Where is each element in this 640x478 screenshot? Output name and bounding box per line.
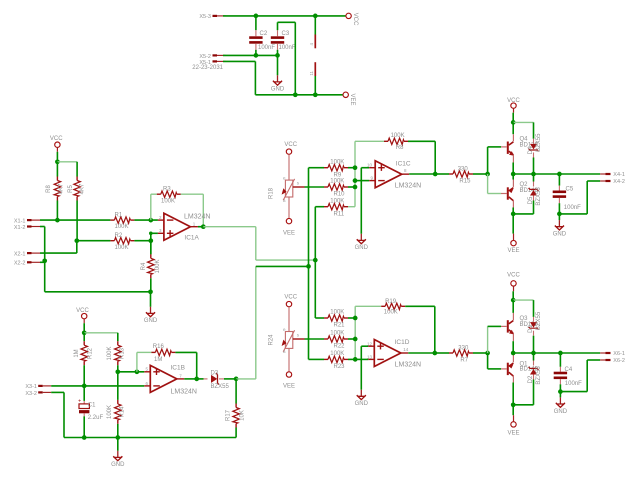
junction emitter rail upper	[511, 172, 516, 177]
svg-text:VCC: VCC	[507, 273, 520, 279]
wire IC1D output	[408, 352, 435, 354]
wire X1-2 down to tie	[40, 227, 45, 261]
wire VCC to D4 branch	[513, 121, 533, 123]
svg-text:100K: 100K	[330, 351, 344, 357]
ground GND IC1C	[355, 234, 369, 251]
svg-text:C5: C5	[566, 187, 574, 193]
svg-text:GND: GND	[271, 87, 285, 93]
svg-text:VEE: VEE	[507, 248, 519, 254]
svg-text:100K: 100K	[330, 198, 344, 204]
svg-text:330: 330	[458, 167, 469, 173]
svg-text:VCC: VCC	[352, 13, 358, 26]
supply VEE R24	[283, 372, 295, 390]
svg-text:100K: 100K	[107, 346, 113, 360]
svg-text:IC1D: IC1D	[395, 339, 410, 346]
wire GND net X5-2	[223, 55, 278, 75]
svg-text:X2-2: X2-2	[14, 261, 26, 267]
svg-text:R13: R13	[120, 347, 126, 359]
svg-text:GND: GND	[554, 409, 568, 415]
svg-text:+: +	[78, 399, 81, 405]
junction C3 bottom	[275, 53, 280, 58]
svg-text:VCC: VCC	[76, 308, 89, 314]
junction R10 on bus	[353, 185, 358, 190]
supply VCC top	[346, 13, 358, 26]
svg-text:100K: 100K	[330, 159, 344, 165]
wire plus pin IC1D to ground	[361, 346, 368, 390]
junction C1 bottom	[82, 435, 87, 440]
wire X3-1 inverting line	[51, 385, 144, 387]
svg-text:R23: R23	[334, 364, 346, 370]
capacitor C4 100nF	[554, 353, 582, 392]
svg-text:C2: C2	[260, 31, 268, 37]
junction VCC jog	[55, 159, 60, 164]
svg-text:GND: GND	[355, 401, 369, 407]
wire VCC jog to R13	[84, 332, 118, 334]
junction VEE node lower	[511, 402, 516, 407]
svg-text:BZX55: BZX55	[536, 311, 542, 330]
svg-text:VEE: VEE	[283, 384, 295, 390]
svg-text:R24: R24	[269, 334, 275, 346]
svg-text:VCC: VCC	[50, 136, 63, 142]
svg-text:X2-1: X2-1	[14, 251, 26, 257]
svg-text:VEE: VEE	[507, 430, 519, 436]
svg-text:LM324N: LM324N	[171, 389, 197, 396]
junction base node lower	[485, 351, 490, 356]
supply VCC IC1A	[50, 136, 63, 162]
svg-text:LM324N: LM324N	[395, 361, 421, 368]
svg-text:R19: R19	[385, 299, 397, 305]
svg-text:4K7: 4K7	[59, 183, 65, 194]
capacitor C5 100nF	[553, 174, 581, 214]
svg-text:BZX55: BZX55	[211, 384, 230, 390]
junction C5 top	[557, 172, 562, 177]
wire summing bus IC1D	[354, 306, 356, 359]
resistor R22 100K	[324, 331, 355, 350]
connector X6-1	[600, 351, 625, 357]
junction VCC jog IC1B	[82, 330, 87, 335]
power pin 4 IC1 supply gate	[309, 16, 315, 48]
connector X1-1	[14, 218, 40, 224]
svg-text:R9: R9	[334, 172, 342, 178]
svg-text:100nF: 100nF	[565, 381, 582, 387]
transistor Q2 BD140	[507, 174, 539, 214]
svg-text:R8: R8	[396, 145, 404, 151]
svg-text:VCC: VCC	[284, 142, 297, 148]
svg-text:100K: 100K	[107, 405, 113, 419]
svg-text:R21: R21	[334, 323, 346, 329]
resistor R16 1M positive feedback	[137, 344, 197, 379]
op-amp IC1C	[367, 160, 421, 189]
junction R21 on bus	[353, 316, 358, 321]
wire VCC jog to R5	[57, 161, 77, 163]
svg-text:X6-2: X6-2	[613, 358, 625, 364]
connector X4-1	[600, 172, 625, 178]
svg-text:VEE: VEE	[349, 94, 355, 106]
svg-text:2.2uF: 2.2uF	[88, 415, 104, 421]
resistor R5 4K7	[68, 162, 86, 241]
resistor R23 100K	[309, 351, 356, 370]
junction R9 on bus	[353, 165, 358, 170]
ground GND C4	[554, 392, 568, 415]
svg-text:100nF: 100nF	[279, 45, 296, 51]
svg-text:22-23-2031: 22-23-2031	[192, 65, 223, 71]
junction R4 bottom / ground node	[148, 289, 153, 294]
wire plus pin IC1C to ground	[361, 168, 369, 234]
junction IC1B bus	[306, 264, 311, 269]
junction C2 top	[254, 14, 259, 19]
supply VEE lower stage	[507, 405, 519, 437]
connector X3-2	[25, 391, 51, 397]
svg-text:4K7: 4K7	[79, 183, 85, 194]
connector X6-2	[600, 358, 625, 364]
svg-text:C1: C1	[88, 403, 96, 409]
wire R1 to inverting input	[134, 219, 158, 221]
connector X3-1	[25, 384, 51, 390]
wire non-inverting input node	[149, 232, 158, 255]
svg-text:BZX55: BZX55	[536, 366, 542, 385]
op-amp IC1B	[144, 365, 197, 396]
wire IC1A output	[198, 226, 203, 228]
capacitor C3	[271, 30, 296, 55]
junction C4 top	[558, 351, 563, 356]
svg-text:X1-2: X1-2	[14, 225, 26, 231]
svg-text:X3-2: X3-2	[25, 391, 37, 397]
svg-text:1M: 1M	[74, 349, 80, 357]
supply VCC IC1B	[76, 308, 89, 333]
resistor R2 100K	[77, 233, 151, 251]
svg-text:R5: R5	[68, 185, 74, 193]
junction R1 / R3 node	[148, 218, 153, 223]
svg-text:IC1B: IC1B	[171, 365, 185, 372]
junction base node upper	[485, 172, 490, 177]
svg-text:GND: GND	[111, 462, 125, 468]
ground GND IC1B	[111, 438, 125, 469]
junction minus pin IC1C	[353, 178, 358, 183]
wire bus IC1B-out to R9 and R23	[308, 168, 310, 360]
wire IC1B out route to bus	[236, 266, 308, 379]
wire IC1B output	[184, 378, 196, 380]
wire IC1A output route to bus	[203, 227, 315, 260]
junction D1/D2 on rail	[531, 351, 536, 356]
svg-text:12: 12	[367, 341, 373, 346]
svg-text:R11: R11	[334, 211, 345, 217]
resistor R21 100K	[315, 310, 355, 329]
diode D3 BZX55	[197, 370, 236, 389]
svg-text:Q3: Q3	[520, 316, 529, 322]
wire base to Q1	[488, 353, 507, 369]
wire C3 top to VEE rail	[278, 22, 296, 95]
power pin 11 IC1 supply gate	[309, 62, 315, 95]
junction R8 bottom	[55, 218, 60, 223]
svg-text:100K: 100K	[115, 245, 129, 251]
svg-text:10K: 10K	[239, 410, 245, 421]
wire VCC to D1 branch	[513, 299, 533, 301]
junction C4 bottom	[558, 389, 563, 394]
resistor R11 100K	[315, 198, 355, 217]
svg-text:100nF: 100nF	[564, 205, 581, 211]
junction power pin 11	[313, 92, 318, 97]
svg-text:R7: R7	[460, 358, 468, 364]
junction C3 route on VEE rail	[293, 92, 298, 97]
ground GND IC1D	[355, 390, 369, 408]
svg-text:R17: R17	[225, 409, 231, 421]
wire X2-1 to R5/R2 node	[40, 241, 77, 253]
svg-text:X5-3: X5-3	[199, 14, 211, 20]
resistor R4 100K	[141, 241, 161, 292]
svg-text:GND: GND	[144, 318, 158, 324]
svg-text:IC1C: IC1C	[396, 160, 411, 167]
ground GND C5	[553, 214, 567, 238]
junction VCC node upper	[511, 120, 516, 125]
svg-text:Q2: Q2	[520, 182, 529, 188]
svg-text:X3-1: X3-1	[25, 384, 37, 390]
junction R8 loop / IC1C out	[433, 172, 438, 177]
wire X1-1 to R1	[40, 219, 110, 221]
potentiometer R18	[269, 142, 305, 218]
diode D1 BZX55	[528, 300, 542, 353]
junction R19 loop / IC1D out	[432, 351, 437, 356]
ground GND top	[271, 75, 285, 92]
svg-text:VCC: VCC	[284, 294, 297, 300]
svg-text:1M: 1M	[154, 357, 162, 363]
svg-text:R14: R14	[120, 406, 126, 418]
supply VEE R18	[283, 218, 295, 236]
connector X2-2	[14, 261, 40, 267]
svg-text:R4: R4	[141, 262, 147, 270]
junction R12 bottom / C1	[82, 384, 87, 389]
transistor Q3 BD139	[507, 313, 539, 353]
svg-text:R16: R16	[153, 344, 165, 350]
supply VEE top	[343, 92, 355, 105]
svg-text:R18: R18	[269, 187, 275, 199]
potentiometer R24	[269, 294, 305, 371]
svg-text:D1: D1	[528, 325, 534, 333]
junction R2 left	[74, 238, 79, 243]
connector X5-1	[192, 60, 225, 71]
connector X2-1	[14, 251, 40, 257]
junction IC1A output	[201, 224, 206, 229]
wire R24 wiper to R22	[305, 338, 325, 340]
junction C2 bottom	[254, 53, 259, 58]
svg-text:100K: 100K	[391, 133, 405, 139]
wire output rail upper	[513, 173, 600, 175]
svg-text:D2: D2	[528, 375, 534, 383]
svg-text:R12: R12	[87, 347, 93, 359]
svg-text:100nF: 100nF	[258, 45, 275, 51]
junction X1-2/X2-2 tie	[42, 258, 47, 263]
wire X4-2 route	[559, 181, 600, 214]
junction VEE node upper	[511, 212, 516, 217]
resistor R13 100K	[107, 333, 126, 372]
svg-text:X4-1: X4-1	[613, 172, 625, 178]
wire X6-2 route	[560, 360, 600, 392]
connector X4-2	[600, 179, 625, 185]
wire VCC to Q3 collector	[512, 300, 514, 313]
svg-text:10: 10	[367, 162, 373, 167]
junction R22 on bus	[353, 337, 358, 342]
svg-text:R22: R22	[334, 344, 346, 350]
capacitor C1 2.2uF polarized	[78, 386, 103, 438]
wire IC1C output	[409, 173, 435, 175]
wire X3-2 to bottom rail	[51, 392, 236, 437]
wire ground return to R4 node	[45, 261, 151, 292]
wire base to Q3	[488, 326, 507, 353]
svg-text:GND: GND	[553, 232, 567, 238]
junction R23 / minus pin	[353, 357, 358, 362]
svg-text:D4: D4	[528, 146, 534, 154]
resistor R1 100K	[110, 213, 134, 231]
transistor Q1 BD140	[507, 353, 539, 405]
wire summing bus IC1C	[354, 141, 356, 206]
junction emitter rail lower	[511, 351, 516, 356]
svg-text:14: 14	[403, 347, 409, 352]
svg-text:100K: 100K	[161, 198, 175, 204]
supply VCC lower stage	[507, 273, 520, 301]
wire VCC rail top	[223, 15, 346, 17]
svg-text:R8: R8	[46, 185, 52, 193]
junction R16 right / output	[194, 377, 199, 382]
junction D4/D5 on rail	[531, 172, 536, 177]
svg-text:X4-2: X4-2	[613, 179, 625, 185]
svg-text:C3: C3	[282, 31, 290, 37]
junction VCC node lower	[511, 298, 516, 303]
junction D3 / R17	[234, 377, 239, 382]
svg-text:R15: R15	[459, 179, 471, 185]
resistor R7 330	[435, 345, 488, 363]
resistor R14 100K	[107, 372, 126, 438]
svg-text:100K: 100K	[330, 179, 344, 185]
svg-text:100K: 100K	[330, 331, 344, 337]
wire VEE rail top	[223, 61, 343, 94]
svg-text:R1: R1	[115, 213, 123, 219]
ground GND IC1A	[144, 292, 158, 324]
connector X1-2	[14, 225, 40, 231]
resistor R17 10K	[225, 379, 245, 438]
svg-text:LM324N: LM324N	[395, 182, 421, 189]
wire R18 wiper to R10	[305, 186, 325, 188]
svg-text:R10: R10	[334, 192, 346, 198]
svg-text:D3: D3	[211, 370, 219, 376]
svg-text:100K: 100K	[115, 224, 129, 230]
junction R2 right	[148, 238, 153, 243]
transistor Q4 BD139	[507, 134, 539, 174]
svg-text:100K: 100K	[330, 310, 344, 316]
svg-text:X6-1: X6-1	[613, 351, 625, 357]
connector X5-2	[199, 54, 225, 60]
diode D4 BZX55	[528, 122, 542, 174]
wire minus pin IC1D	[355, 358, 368, 360]
svg-text:C4: C4	[565, 367, 573, 373]
op-amp IC1D	[367, 339, 421, 369]
junction R13 / plus line	[115, 369, 120, 374]
wire bus IC1A-out to R11 and R21	[314, 207, 316, 318]
svg-text:IC1A: IC1A	[184, 235, 199, 242]
svg-text:100K: 100K	[384, 310, 398, 316]
junction C5 bottom	[557, 212, 562, 217]
junction IC1A bus	[313, 258, 318, 263]
resistor R19 100K feedback	[355, 299, 435, 353]
diode D5 BZX55	[513, 174, 542, 214]
svg-text:R3: R3	[163, 187, 171, 193]
svg-text:GND: GND	[355, 245, 369, 251]
wire base to Q2	[488, 174, 507, 194]
connector X5-3	[199, 14, 225, 20]
resistor R8 4K7	[46, 162, 65, 220]
capacitor C2	[249, 16, 275, 56]
resistor R12 1M	[74, 333, 94, 386]
svg-text:330: 330	[458, 345, 469, 351]
svg-text:13: 13	[367, 354, 373, 359]
resistor R15 330	[435, 167, 487, 185]
wire VCC to Q4 collector	[512, 122, 514, 134]
junction R16 loop on plus line	[135, 369, 140, 374]
svg-text:D5: D5	[528, 196, 534, 204]
svg-text:100K: 100K	[155, 259, 161, 273]
op-amp IC1A	[158, 213, 211, 241]
svg-text:Q4: Q4	[520, 136, 529, 142]
svg-text:LM324N: LM324N	[184, 214, 210, 221]
junction R14 bottom / ground	[115, 435, 120, 440]
resistor R10 100K	[324, 179, 355, 198]
svg-text:R2: R2	[115, 233, 123, 239]
svg-text:11: 11	[309, 71, 314, 76]
wire non-inverting line IC1B	[118, 371, 145, 373]
wire output rail lower	[513, 352, 600, 354]
resistor R9 100K	[309, 159, 356, 178]
supply VCC upper stage	[507, 98, 520, 123]
junction power pin 4	[313, 14, 318, 19]
svg-text:BZX55: BZX55	[536, 133, 542, 152]
resistor R8 100K feedback	[355, 133, 435, 174]
wire base to Q4	[488, 147, 507, 174]
diode D2 BZX55	[513, 353, 542, 405]
supply VEE upper stage	[507, 214, 519, 254]
wire minus pin IC1C	[355, 180, 369, 182]
svg-text:BZX55: BZX55	[536, 187, 542, 206]
svg-text:VEE: VEE	[283, 230, 295, 236]
svg-text:X1-1: X1-1	[14, 218, 26, 224]
wire X2-2 stub	[40, 261, 45, 263]
resistor R3 100K feedback	[151, 187, 204, 227]
